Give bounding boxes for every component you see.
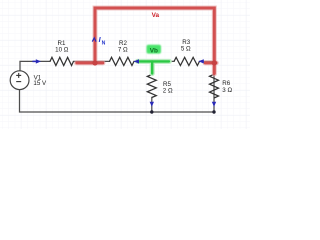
svg-text:Vb: Vb [150,47,158,54]
svg-text:5 Ω: 5 Ω [181,45,191,52]
svg-text:3 Ω: 3 Ω [222,87,232,94]
svg-text:2 Ω: 2 Ω [163,87,173,94]
svg-text:15 V: 15 V [33,80,47,87]
svg-text:10 Ω: 10 Ω [55,47,69,54]
svg-text:7 Ω: 7 Ω [118,47,128,54]
svg-text:Va: Va [152,12,160,19]
svg-text:N: N [102,40,106,46]
svg-text:R6: R6 [222,80,230,87]
